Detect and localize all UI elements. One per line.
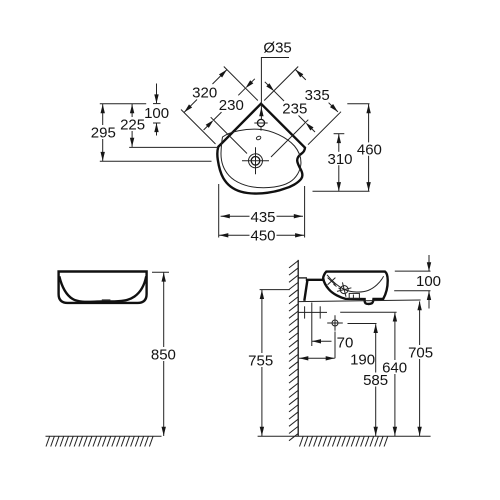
dim 70 <box>312 340 332 342</box>
dim 450 <box>219 234 249 236</box>
floor line front <box>46 435 162 437</box>
floor hatching side <box>300 436 388 446</box>
drain left extension <box>211 117 247 153</box>
dim 640 <box>394 313 396 360</box>
dim 100 plan <box>156 84 158 104</box>
svg-text:850: 850 <box>151 347 176 364</box>
dim 755 <box>261 290 263 353</box>
wall line <box>297 260 299 436</box>
extension line 450 right <box>304 186 306 238</box>
svg-text:335: 335 <box>305 87 330 104</box>
svg-text:Ø35: Ø35 <box>263 39 291 56</box>
svg-text:460: 460 <box>357 142 382 159</box>
reference line bottom of basin <box>298 300 420 302</box>
svg-text:755: 755 <box>248 353 273 370</box>
svg-text:585: 585 <box>363 372 388 389</box>
drain level extension line left <box>100 160 212 162</box>
bolt hole left <box>304 306 306 318</box>
bolt holes line <box>299 311 327 313</box>
extension rim level right <box>395 270 431 272</box>
overflow hole <box>256 136 262 141</box>
tick 755 top <box>260 289 290 291</box>
svg-text:705: 705 <box>408 345 433 362</box>
bracket rear rim bar <box>306 279 324 281</box>
svg-text:295: 295 <box>91 124 116 141</box>
extension vertical x312 <box>311 303 313 347</box>
svg-text:70: 70 <box>337 334 354 351</box>
basin front outline <box>59 272 147 303</box>
extension line 450 left <box>218 184 220 238</box>
apex left extension <box>224 67 258 101</box>
dim 295 <box>102 104 104 125</box>
dim 225 <box>131 104 133 117</box>
dim 850 <box>163 272 165 347</box>
svg-text:100: 100 <box>144 105 169 122</box>
level line 640 <box>340 311 396 313</box>
drain notch front <box>102 299 111 301</box>
basin inner bowl plan <box>221 129 301 188</box>
svg-text:435: 435 <box>250 209 275 226</box>
dim 460 <box>368 104 370 142</box>
svg-text:235: 235 <box>282 101 307 118</box>
dim 235 <box>274 91 284 101</box>
right corner extension <box>308 112 341 145</box>
extension line minus100 right <box>394 290 430 292</box>
tick 310 top <box>334 133 345 135</box>
dim 335 <box>295 70 305 80</box>
left corner extension <box>181 110 216 145</box>
apex right extension <box>264 67 298 101</box>
basin side inner bowl line <box>327 275 384 292</box>
drain mark side <box>335 281 353 299</box>
floor line side <box>258 435 431 437</box>
dim 435 <box>221 215 250 217</box>
bolt hole right <box>319 306 321 318</box>
dim 705 <box>419 301 421 345</box>
corner level extension line left <box>129 146 218 148</box>
tick 460 top <box>347 103 369 105</box>
dim 230 <box>214 112 222 120</box>
dim 190 <box>299 357 335 359</box>
siphon level extension <box>348 323 377 325</box>
svg-text:190: 190 <box>350 351 375 368</box>
tick 850 top <box>152 271 169 273</box>
dia 35 leader <box>261 58 289 120</box>
basin outer outline plan <box>217 104 305 194</box>
dim 310 <box>338 134 340 152</box>
svg-text:100: 100 <box>416 273 441 290</box>
siphon vertical extension <box>334 332 336 359</box>
svg-text:310: 310 <box>327 151 352 168</box>
dim 320 <box>184 100 197 113</box>
faucet hole <box>257 119 264 126</box>
dim 585 <box>375 324 377 372</box>
floor hatching front <box>46 436 153 446</box>
apex level extension line left <box>100 103 146 105</box>
dashed line tap to drain <box>334 284 337 286</box>
basin front inner bowl <box>59 276 146 302</box>
drain right extension <box>271 120 308 157</box>
wall hatching <box>289 261 298 441</box>
svg-text:230: 230 <box>219 97 244 114</box>
tap hole X mark <box>328 278 336 285</box>
bracket top line <box>298 277 307 279</box>
svg-text:225: 225 <box>120 117 145 134</box>
dim 100 side <box>428 255 430 271</box>
bracket slant edge <box>304 281 307 301</box>
drain box side <box>349 293 359 298</box>
extension line 460 bottom <box>313 190 370 192</box>
drain outer circle <box>249 154 263 168</box>
svg-text:450: 450 <box>250 228 275 245</box>
drain crosshair <box>242 160 269 162</box>
svg-text:320: 320 <box>192 84 217 101</box>
drain inner circle <box>251 157 260 166</box>
siphon mark <box>332 320 338 326</box>
basin side profile <box>323 272 388 304</box>
